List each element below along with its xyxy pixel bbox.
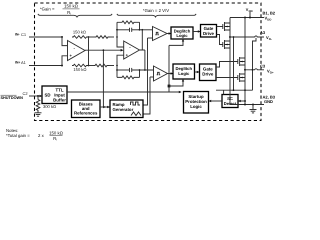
resistor RF2 150k (bottom feedback) [72,64,88,67]
wire U3 to deglitch 1 with arrow [167,33,171,35]
node sense on VO+ [252,69,254,71]
node CI1 right [139,29,141,31]
wire to op-amp inverting input [62,37,68,46]
pin C3 (VO+) [260,63,274,74]
transistor Q3 (high side, half-bridge 2) [216,57,245,67]
svg-text:Ri: Ri [53,136,57,142]
node CI1 left [116,29,118,31]
svg-text:150 kΩ: 150 kΩ [73,67,86,72]
svg-text:Logic: Logic [178,71,190,76]
svg-text:A3: A3 [260,30,266,35]
pin C2 (SHUTDOWN) [1,91,29,100]
transistor Q4 (low side, half-bridge 2) [216,73,245,82]
svg-text:300 kΩ: 300 kΩ [43,104,56,109]
wire sense into SC detect right (arrow) [239,100,245,102]
supply VDD label [246,8,253,18]
comparator U3 (top PWM) [153,27,168,41]
node U1 output [88,36,90,38]
wire SD to resistor [37,96,39,100]
resistor RS1 (top series) [95,36,110,39]
svg-text:*Gain = 2 V/V: *Gain = 2 V/V [143,8,169,13]
box Biases and References [72,100,101,118]
svg-text:150 kΩ: 150 kΩ [49,130,64,135]
svg-text:O-: O- [269,37,272,41]
svg-text:Logic: Logic [190,104,202,109]
wire GND rail [230,104,264,106]
svg-text:SHUTDOWN: SHUTDOWN [1,96,24,100]
wire SC detect to startup (arrow) [209,100,222,102]
node U2 out down [144,69,146,71]
svg-text:2 x: 2 x [38,133,45,138]
svg-text:C2: C2 [23,91,29,96]
op-amp U2 (integrator) [124,41,140,59]
brace under second-stage gain [117,14,196,17]
node startup branch [168,85,171,88]
ground (output stage) [250,105,257,113]
wire IN+ input line [29,65,62,67]
wire comparator 1 lower input [148,37,153,39]
node VDD bridge2 [244,17,246,19]
notes [6,128,64,142]
IC boundary (dashed) [35,3,262,121]
wire startup to deglitch 2 (arrow up) [169,80,183,86]
resistor RI1 (integrator top feedback) [117,21,140,24]
resistor 300k (vertical) [36,100,40,113]
transistor Q2 (low side, half-bridge 1) [217,35,231,50]
wire U2 output down branch [144,50,146,70]
pin A2 B3 (GND) [263,94,276,104]
svg-text:150 kΩ: 150 kΩ [73,29,86,34]
svg-text:150 kΩ: 150 kΩ [64,4,79,9]
node CI2 right [139,69,141,71]
wire RI2 corners [117,66,140,78]
svg-text:O+: O+ [270,70,274,74]
wire VO- line with hop [230,36,264,37]
wire VO+ line with hop [245,69,264,70]
box Ramp Generator [110,100,143,118]
svg-text:IN+: IN+ [15,61,20,65]
wire bias feed vertical [102,51,104,107]
svg-text:Ri: Ri [67,10,71,16]
wire VO- sense down to SC rail [233,37,235,90]
wire to integrator inverting input [117,37,124,47]
ground (shutdown resistor) [35,113,42,116]
wire to integrator non-inverting input [117,55,124,65]
wire startup to deglitch 1 (arrow up) [169,40,183,46]
transistor Q1 (high side, half-bridge 1) [217,22,231,31]
node U2 out up [141,29,143,31]
box Startup Protection Logic [184,92,209,114]
wire startup vertical [168,45,170,92]
node SD junction [37,95,39,97]
formula: first-stage gain [40,4,80,16]
wire sense rail horizontal [216,89,253,91]
svg-text:References: References [74,111,98,116]
wire U1 output center line into integrator [89,49,123,51]
svg-text:DD: DD [267,17,271,21]
pin A1 (IN+) [15,60,27,65]
svg-text:*Total gain =: *Total gain = [6,133,30,138]
node integrator top input [116,36,118,38]
node IN+ branch [61,65,63,67]
box SC Detect [222,95,238,108]
svg-text:A1: A1 [21,60,27,65]
node sense rail bridge2 crossing [244,89,246,91]
capacitor CI2 (integrator bottom feedback) [117,68,154,72]
wire bottom rail [89,65,95,67]
wire deglitch 1 to gate drive 1 with arrow [193,31,200,33]
wire ramp 1 vertical [143,38,148,105]
resistor RS2 (bottom series) [94,64,109,67]
wire deglitch 2 to gate drive 2 with arrow [195,71,199,73]
svg-text:Drive: Drive [202,72,214,77]
resistor RI2 (integrator bottom feedback) [117,76,140,79]
pin B1 B2 (VDD) [263,10,276,21]
wire U2 output [140,30,145,50]
svg-text:GND: GND [264,99,273,104]
node sense on bridge 2 [244,100,246,102]
node VO- tap [229,36,231,38]
node VDD label stub [249,17,251,19]
box Gate Drive 1 [201,25,217,38]
arrow into TTL buffer [40,95,43,98]
brace under first-stage gain [38,14,112,17]
op-amp U1 (input diff amp) [68,41,86,61]
comparator U4 (bottom PWM) [154,66,168,81]
node IN- branch [61,36,63,38]
capacitor CI1 (integrator top feedback) [117,28,140,32]
wire bridge 2 conductor [244,18,246,105]
svg-text:*Gain =: *Gain = [40,7,55,12]
pin A3 (VO-) [260,30,272,41]
svg-text:Logic: Logic [176,33,188,38]
svg-text:Drive: Drive [203,31,215,36]
node integrator bottom input [116,65,118,67]
wire U1 output rails [85,37,89,66]
node CI2 left [116,69,118,71]
wire RI1 corners [117,22,140,37]
box TTL Input Buffer [42,86,67,104]
box Deglitch Logic 1 [171,27,193,39]
wire comparator 1 input rail [140,29,153,31]
resistor RF1 150k (top feedback) [72,36,88,39]
wire SHUTDOWN line [29,95,41,97]
wire U4 to deglitch 2 with arrow [168,73,173,75]
wire biases to ramp generator (double arrow) [100,106,110,108]
wire top rail [89,36,96,38]
pin C1 (IN-) [15,32,27,37]
wire bridge 1 conductor [229,18,231,105]
svg-text:SD: SD [45,93,51,98]
svg-text:C3: C3 [260,63,266,68]
node VO+ tap [244,69,246,71]
wire SC detect top feed [223,90,225,94]
wire TTL output to startup logic [67,91,181,93]
svg-text:DD: DD [249,9,253,13]
box Deglitch Logic 2 [173,64,195,79]
node bias feed [103,49,105,51]
wire sense from VO- (bump + step down) [253,38,257,90]
svg-text:Generator: Generator [113,107,134,112]
svg-text:IN-: IN- [15,33,20,37]
node GND bridge 2 [244,104,246,106]
box Gate Drive 2 [200,64,217,81]
svg-text:C1: C1 [21,32,27,37]
wire ramp 2 vertical [143,77,150,114]
svg-text:Buffer: Buffer [53,97,66,102]
wire VDD rail [230,17,264,19]
wire to op-amp non-inverting input [62,56,68,66]
wire IN- input line [29,36,62,38]
wire comparator 2 lower input [150,76,154,78]
node GND symbol stub [252,104,254,106]
